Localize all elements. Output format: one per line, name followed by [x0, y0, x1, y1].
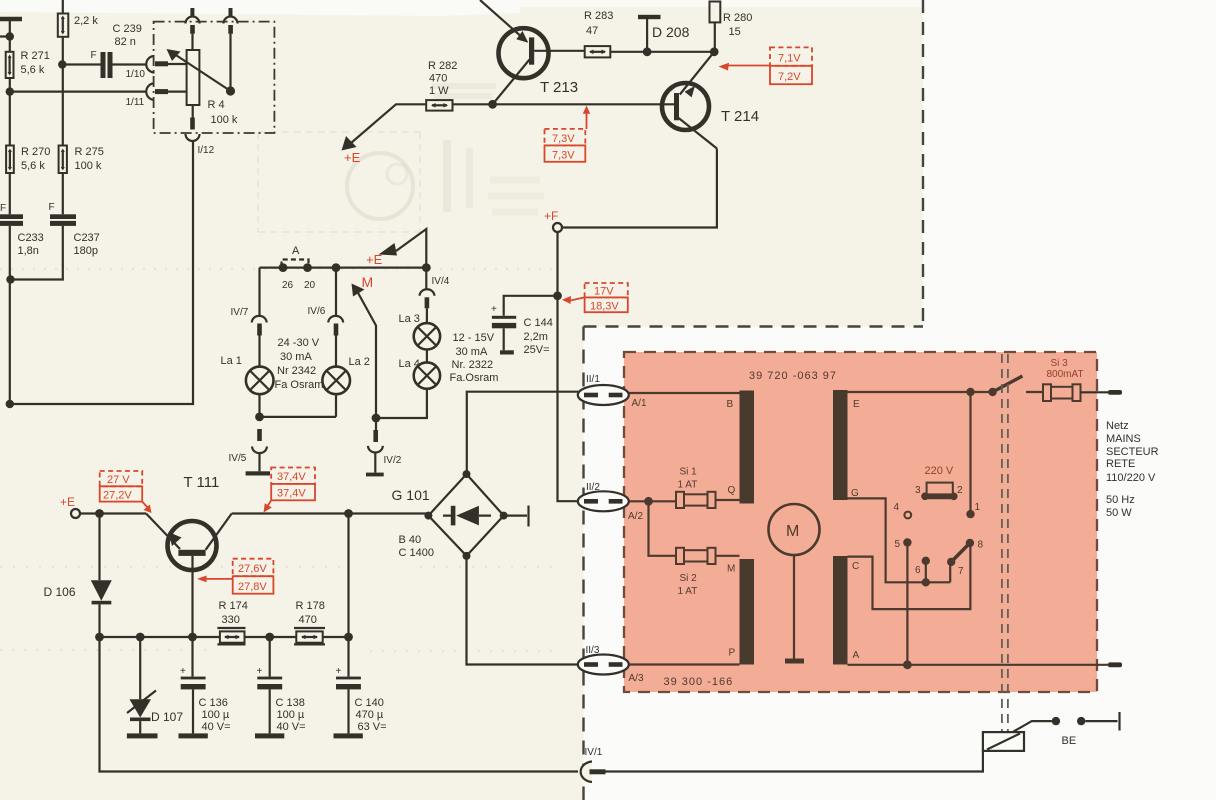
svg-text:50 W: 50 W: [1106, 507, 1132, 519]
red voltage box 7,3V 7,3V: [545, 106, 591, 162]
svg-text:IV/1: IV/1: [585, 747, 603, 758]
module part number: [749, 370, 837, 382]
connector IV/6: [308, 268, 344, 336]
wire node to I/11: [10, 90, 147, 92]
mains module highlight area: [624, 352, 1097, 692]
svg-text:Q: Q: [728, 485, 736, 496]
junction rail bottom: [6, 400, 14, 408]
junction R280 node: [710, 47, 719, 56]
svg-text:110/220 V: 110/220 V: [1106, 472, 1156, 484]
svg-text:7,1V: 7,1V: [778, 53, 801, 65]
svg-text:La 2: La 2: [349, 356, 370, 368]
connector IV/2: [368, 418, 402, 473]
label +E (red, top): [344, 150, 361, 165]
transistor T214: [662, 52, 759, 149]
junction T213 emitter node: [488, 100, 497, 109]
svg-text:Fa.Osram: Fa.Osram: [450, 372, 499, 384]
resistor R282: [426, 60, 457, 111]
junction C140 riser node: [344, 509, 353, 518]
junction pin1 riser: [966, 388, 974, 396]
svg-text:B: B: [727, 399, 734, 410]
capacitor C140: [336, 637, 387, 733]
junction A bus: [903, 660, 912, 669]
svg-text:P: P: [729, 648, 736, 659]
svg-text:6: 6: [915, 565, 921, 576]
wire base bus: [453, 103, 675, 105]
svg-text:Si 1: Si 1: [680, 467, 698, 478]
mechanical linkage dashed: [1002, 354, 1008, 731]
svg-text:100 k: 100 k: [211, 114, 238, 126]
wire C to pin 8: [848, 543, 971, 609]
svg-text:470: 470: [299, 614, 317, 626]
switch contact A: [279, 245, 316, 291]
potentiometer module box: [154, 22, 275, 133]
wire top-left stub: [0, 17, 22, 22]
svg-text:II/1: II/1: [586, 374, 600, 385]
svg-text:8: 8: [978, 540, 984, 551]
wire regulator ground rail: [100, 636, 349, 638]
wire pin5 to A bus: [906, 543, 908, 665]
svg-text:+: +: [491, 304, 497, 315]
svg-text:R 174: R 174: [219, 600, 248, 612]
wire A/1: [623, 392, 740, 394]
junction wiper node: [372, 414, 381, 423]
fuse Si1: [676, 467, 740, 509]
svg-text:R 275: R 275: [75, 146, 104, 158]
junction C144 node: [553, 291, 562, 300]
svg-text:C: C: [852, 561, 859, 572]
svg-text:800mAT: 800mAT: [1047, 369, 1084, 380]
wire selector pin1 riser: [969, 392, 971, 514]
wire I/12 to rail: [10, 141, 193, 405]
arrow to +E rail: [379, 229, 427, 268]
svg-text:IV/4: IV/4: [432, 276, 450, 287]
contact BE: [1052, 712, 1120, 747]
resistor 2,2k: [58, 14, 99, 37]
terminal C138 ground: [255, 733, 284, 738]
svg-text:La 4: La 4: [399, 358, 420, 370]
capacitor C136: [180, 637, 231, 733]
svg-text:M: M: [727, 564, 735, 575]
connector IV/1: [581, 747, 606, 782]
svg-text:Nr 2342: Nr 2342: [277, 365, 316, 377]
svg-text:MAINS: MAINS: [1106, 433, 1141, 445]
svg-text:39 300 -166: 39 300 -166: [664, 676, 734, 688]
label B: [727, 399, 734, 410]
capacitor C144: [491, 296, 558, 356]
resistor R178: [294, 600, 325, 644]
svg-text:100 µ: 100 µ: [277, 709, 305, 721]
svg-text:7,3V: 7,3V: [552, 150, 575, 162]
relay BE: [983, 732, 1024, 751]
svg-text:F: F: [91, 50, 97, 61]
svg-text:30 mA: 30 mA: [456, 346, 488, 358]
connector IV/5: [229, 429, 267, 471]
terminal C140 ground: [334, 733, 363, 738]
capacitor C237: [49, 202, 100, 257]
terminal C136 ground: [179, 733, 208, 738]
svg-text:II/3: II/3: [586, 645, 600, 656]
red voltage box 37,4V 37,4V: [264, 468, 316, 513]
svg-text:T 111: T 111: [184, 474, 220, 491]
wire left rail: [0, 19, 10, 404]
svg-text:+: +: [257, 666, 263, 677]
wire +E feed arrow: [342, 104, 427, 150]
connector I/11: [126, 83, 169, 108]
wire A/3: [623, 663, 740, 665]
transformer secondary bar C-A: [833, 556, 848, 665]
junction pin6: [922, 578, 930, 586]
junction rail D106: [95, 633, 104, 642]
resistor R275: [59, 146, 104, 174]
svg-text:IV/5: IV/5: [229, 453, 247, 464]
connector IV/7: [231, 268, 267, 336]
svg-text:Si 3: Si 3: [1051, 358, 1069, 369]
wire +F rail: [558, 232, 579, 501]
transistor T111: [146, 474, 232, 637]
junction rail C138: [265, 633, 274, 642]
wire main +E rail: [80, 512, 428, 514]
junction rail D107: [136, 633, 145, 642]
motor M: [769, 504, 820, 664]
svg-text:T 214: T 214: [721, 108, 759, 125]
junction C237 join: [6, 275, 14, 283]
svg-text:27 V: 27 V: [107, 474, 130, 486]
svg-text:7: 7: [958, 566, 964, 577]
svg-text:+: +: [336, 666, 342, 677]
svg-text:1/10: 1/10: [126, 69, 146, 80]
terminal IV/5 ground: [246, 471, 270, 475]
wire G to pins 6-7: [848, 498, 951, 582]
svg-text:180p: 180p: [74, 245, 98, 257]
label C: [852, 561, 859, 572]
svg-text:470: 470: [429, 73, 447, 85]
svg-text:M: M: [362, 274, 374, 290]
svg-text:37,4V: 37,4V: [277, 471, 306, 483]
wire relay to contact: [1013, 721, 1052, 732]
terminal +F: [544, 209, 562, 232]
svg-text:La 3: La 3: [399, 313, 420, 325]
capacitor C239: [62, 23, 147, 78]
svg-text:R 4: R 4: [208, 99, 225, 111]
svg-text:1: 1: [975, 502, 981, 513]
page boundary dashed right: [922, 0, 924, 327]
connector II/3: [578, 645, 644, 684]
page boundary dashed middle: [584, 325, 924, 327]
wire bridge to II/3: [467, 556, 579, 665]
wire bottom bus right: [602, 751, 983, 772]
svg-text:27,2V: 27,2V: [103, 490, 132, 502]
svg-text:100 k: 100 k: [75, 160, 102, 172]
svg-text:La 1: La 1: [221, 355, 242, 367]
svg-text:C 144: C 144: [524, 317, 553, 329]
svg-text:B 40: B 40: [399, 534, 422, 546]
label M: [727, 564, 735, 575]
terminal D107 ground: [127, 733, 158, 738]
svg-text:25V=: 25V=: [524, 344, 550, 356]
svg-text:BE: BE: [1062, 735, 1077, 747]
svg-text:50 Hz: 50 Hz: [1106, 494, 1135, 506]
svg-text:5,6 k: 5,6 k: [21, 160, 45, 172]
junction C239 tap: [58, 60, 66, 68]
lamp rating text 24-30V: [275, 337, 324, 391]
junction I/11 node: [6, 87, 14, 95]
svg-text:Nr. 2322: Nr. 2322: [452, 359, 494, 371]
svg-text:1 AT: 1 AT: [678, 480, 698, 491]
junction lamp join: [255, 413, 264, 422]
label E: [853, 399, 860, 410]
wire rail riser to +E rail: [347, 514, 349, 638]
transistor T213: [480, 0, 585, 104]
svg-text:C 1400: C 1400: [399, 547, 434, 559]
wiper arrow M: [352, 284, 377, 419]
svg-text:R 178: R 178: [296, 600, 325, 612]
capacitor C233: [0, 203, 44, 257]
diode D107: [127, 637, 183, 733]
module part number lower: [664, 676, 734, 688]
wire A/2: [623, 501, 677, 556]
terminal mains line: [1108, 390, 1122, 395]
svg-text:330: 330: [222, 614, 240, 626]
svg-text:R 283: R 283: [584, 10, 613, 22]
junction D208 node: [643, 47, 652, 56]
svg-text:E: E: [853, 399, 860, 410]
svg-text:IV/6: IV/6: [308, 306, 326, 317]
svg-text:470 µ: 470 µ: [356, 709, 384, 721]
svg-text:IV/7: IV/7: [231, 307, 249, 318]
junction top stub: [6, 32, 14, 40]
svg-text:40 V=: 40 V=: [277, 721, 306, 733]
resistor R271: [6, 50, 50, 78]
svg-text:1,8n: 1,8n: [18, 245, 39, 257]
svg-text:R 282: R 282: [428, 60, 457, 72]
svg-text:47: 47: [586, 25, 598, 37]
svg-text:C 140: C 140: [355, 697, 384, 709]
svg-text:2,2 k: 2,2 k: [74, 15, 98, 27]
svg-text:+E: +E: [344, 150, 361, 165]
svg-text:A/1: A/1: [632, 398, 647, 409]
svg-text:R 271: R 271: [21, 50, 50, 62]
terminal IV/2 ground: [366, 473, 384, 477]
svg-text:T 213: T 213: [540, 79, 578, 96]
svg-text:Fa Osram: Fa Osram: [275, 379, 324, 391]
svg-text:+F: +F: [544, 209, 558, 223]
wire La4 to wiper node: [376, 389, 427, 418]
selector pin 4: [894, 502, 912, 518]
voltage selector link 220V: [915, 465, 963, 500]
wire lamp join: [260, 394, 337, 417]
connector II/1: [578, 374, 647, 409]
lamp La3: [399, 308, 441, 349]
svg-text:7,3V: 7,3V: [552, 133, 575, 145]
diode D208: [638, 15, 690, 52]
transformer primary bar B-Q: [740, 391, 755, 504]
svg-text:RETE: RETE: [1106, 458, 1135, 470]
wire T214 collector to +F: [562, 149, 717, 228]
svg-text:C237: C237: [74, 232, 100, 244]
svg-text:D 106: D 106: [44, 585, 76, 599]
svg-text:100 µ: 100 µ: [202, 709, 230, 721]
svg-text:G 101: G 101: [392, 487, 430, 503]
svg-text:1/11: 1/11: [126, 97, 145, 108]
svg-text:5,6 k: 5,6 k: [21, 64, 45, 76]
svg-text:C 239: C 239: [113, 23, 142, 35]
wire bridge output stub: [504, 506, 529, 527]
potentiometer R4: [167, 8, 238, 141]
junction lamp bus M node: [332, 263, 341, 272]
svg-text:27,6V: 27,6V: [238, 563, 267, 575]
red voltage box 17V 18,3V: [562, 283, 628, 313]
junction D106 node: [95, 509, 104, 518]
junction lamp bus E node: [422, 263, 431, 272]
svg-text:18,3V: 18,3V: [590, 301, 619, 313]
svg-text:2,2m: 2,2m: [524, 331, 548, 343]
svg-text:+E: +E: [60, 495, 75, 509]
fuse Si2: [676, 548, 740, 597]
svg-text:17V: 17V: [594, 286, 614, 298]
svg-text:1 AT: 1 AT: [678, 586, 698, 597]
label A: [853, 650, 860, 661]
terminal mains neutral: [1108, 662, 1122, 667]
bridge rectifier G101: [392, 470, 508, 560]
resistor R283: [584, 10, 613, 57]
selector pin 8: [966, 539, 984, 551]
page boundary dashed vertical: [582, 327, 584, 800]
svg-text:D 107: D 107: [151, 710, 183, 724]
selector pin 7: [947, 558, 964, 577]
svg-text:Netz: Netz: [1106, 420, 1129, 432]
resistor R280: [710, 2, 753, 52]
svg-text:3: 3: [915, 485, 921, 496]
resistor R174: [217, 600, 247, 644]
junction rail C140: [344, 633, 353, 642]
fuse Si3: [1043, 358, 1108, 401]
wire 2k2 rail: [11, 0, 63, 280]
terminal +E (regulator): [60, 495, 80, 518]
mains switch: [988, 376, 1043, 396]
svg-text:A: A: [292, 245, 300, 257]
wire bottom bus left: [100, 637, 579, 772]
svg-text:+: +: [180, 666, 186, 677]
svg-text:I/12: I/12: [198, 145, 215, 156]
selector pin 6: [915, 557, 930, 576]
label +E (lamps, red): [366, 252, 383, 267]
red voltage box 7,1V 7,2V: [719, 47, 813, 84]
resistor R270: [6, 146, 50, 174]
svg-text:F: F: [0, 203, 6, 214]
wire R283 to nodes: [610, 51, 714, 53]
terminal C144 ground: [500, 350, 514, 354]
svg-text:IV/2: IV/2: [384, 455, 402, 466]
label G: [851, 488, 859, 499]
svg-text:20: 20: [304, 280, 316, 291]
lamp La1: [221, 336, 274, 395]
svg-text:A: A: [853, 650, 860, 661]
diode D106: [44, 514, 112, 638]
svg-text:D 208: D 208: [652, 24, 690, 40]
svg-text:220 V: 220 V: [925, 465, 954, 477]
wire A bus: [848, 664, 1109, 666]
mains label block: [1106, 420, 1159, 519]
wire II/1 from bridge: [467, 392, 579, 474]
svg-text:F: F: [49, 202, 55, 213]
wire lamp bus: [260, 267, 427, 269]
svg-text:40 V=: 40 V=: [202, 721, 231, 733]
svg-text:7,2V: 7,2V: [778, 71, 801, 83]
svg-text:26: 26: [282, 280, 294, 291]
svg-text:1 W: 1 W: [429, 85, 449, 97]
svg-text:A/3: A/3: [629, 673, 644, 684]
svg-text:M: M: [786, 523, 799, 540]
red voltage box 27,6V 27,8V: [197, 559, 273, 594]
transformer secondary bar E-G: [833, 390, 848, 500]
svg-text:82 n: 82 n: [115, 36, 136, 48]
svg-text:2: 2: [957, 485, 963, 496]
svg-text:24 -30 V: 24 -30 V: [278, 337, 320, 349]
svg-text:39 720 -063 97: 39 720 -063 97: [749, 370, 837, 382]
svg-text:30 mA: 30 mA: [280, 351, 312, 363]
connector I/12: [198, 145, 215, 156]
svg-text:R 270: R 270: [21, 146, 50, 158]
connector IV/4: [420, 268, 450, 309]
connector II/2: [578, 482, 644, 522]
label Q: [728, 485, 736, 496]
junction rail T111: [188, 633, 197, 642]
svg-text:II/2: II/2: [586, 482, 600, 493]
svg-text:27,8V: 27,8V: [238, 581, 267, 593]
lamp rating text 12-15V: [450, 332, 499, 384]
selector pin 1: [966, 502, 980, 518]
svg-text:15: 15: [729, 26, 741, 38]
label M (red): [362, 274, 374, 290]
lamp La2: [322, 336, 370, 395]
svg-text:R 280: R 280: [723, 12, 752, 24]
svg-text:C 136: C 136: [199, 697, 228, 709]
selector pin 5: [895, 538, 912, 550]
connector I/10: [126, 56, 169, 80]
wire E to switch: [848, 391, 993, 393]
svg-text:Si 2: Si 2: [680, 573, 698, 584]
junction A/2: [644, 497, 653, 506]
transformer primary bar M-P: [740, 559, 755, 665]
svg-text:C233: C233: [18, 232, 44, 244]
svg-text:12 - 15V: 12 - 15V: [453, 332, 495, 344]
selector lever 7-8: [951, 543, 970, 562]
svg-text:37,4V: 37,4V: [277, 488, 306, 500]
mains module dashed border: [624, 352, 1097, 692]
svg-text:SECTEUR: SECTEUR: [1106, 446, 1159, 458]
svg-text:A/2: A/2: [628, 511, 643, 522]
svg-text:5: 5: [895, 539, 901, 550]
lamp La4: [399, 350, 441, 389]
svg-text:C 138: C 138: [276, 697, 305, 709]
svg-text:63 V=: 63 V=: [358, 721, 387, 733]
svg-text:4: 4: [894, 502, 900, 513]
label P: [729, 648, 736, 659]
capacitor C138: [257, 637, 306, 733]
red voltage box 27V 27,2V: [100, 471, 152, 513]
